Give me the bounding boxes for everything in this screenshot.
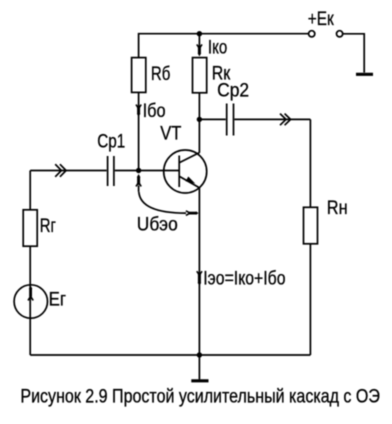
wire top rail from Rб branch to node	[139, 34, 200, 58]
arrow Uбэо up	[136, 174, 141, 192]
wire node to Cp2	[199, 118, 225, 120]
ground top right	[356, 73, 373, 76]
svg-text:Rг: Rг	[40, 215, 56, 237]
wire Rн to bottom rail	[309, 244, 311, 355]
arrow input chevrons	[55, 164, 66, 177]
wire right rail to Rн	[309, 119, 311, 207]
node top rail junction	[197, 31, 202, 36]
transistor emitter lead	[179, 176, 199, 188]
svg-text:Uбэо: Uбэо	[137, 214, 178, 236]
svg-text:Ср1: Ср1	[97, 130, 125, 152]
arrow output chevrons	[280, 114, 291, 126]
node collector Cp2 junction	[197, 117, 202, 122]
wire Cp2 to output corner	[234, 118, 310, 120]
wire bottom rail	[30, 354, 310, 356]
ground bottom	[191, 355, 208, 381]
wire emitter to bottom rail	[198, 188, 200, 355]
svg-text:+Ек: +Ек	[308, 8, 334, 30]
resistor Rк	[193, 58, 207, 93]
transistor base bar	[178, 156, 180, 188]
svg-text:Iко: Iко	[208, 37, 227, 59]
wire Rг through Ег to bottom rail	[29, 246, 31, 355]
svg-text:Rб: Rб	[151, 63, 170, 85]
svg-text:Ср2: Ср2	[217, 79, 249, 101]
svg-text:Iэо=Iко+Iбо: Iэо=Iко+Iбо	[203, 268, 285, 290]
wire Rк to collector	[198, 93, 200, 153]
resistor Rб	[132, 58, 146, 93]
resistor Rн	[304, 207, 318, 244]
svg-text:Rн: Rн	[327, 197, 348, 219]
transistor collector lead	[179, 153, 199, 163]
wire Rб to base node	[138, 92, 140, 170]
wire input to Cp1	[30, 170, 106, 172]
wire +Ек terminal to ground	[343, 34, 364, 73]
arrow Uбэо curve	[139, 192, 199, 216]
terminal +Ек right	[337, 31, 343, 37]
transistor emitter arrow	[186, 177, 196, 184]
source Ег circle	[14, 285, 47, 318]
arrow Iэо	[197, 271, 202, 286]
node base junction	[136, 168, 141, 173]
arrow Ег	[28, 286, 33, 301]
terminal +Ек left	[309, 31, 315, 37]
wire top rail node to +Ек terminal	[199, 33, 308, 35]
wire Cp1 to base	[115, 170, 179, 172]
capacitor Cp2	[227, 104, 234, 136]
arrow Iко	[197, 36, 202, 56]
svg-text:Iбо: Iбо	[143, 100, 166, 122]
arrow Iбо	[136, 105, 141, 117]
svg-text:Рисунок 2.9 Простой усилительн: Рисунок 2.9 Простой усилительный каскад …	[20, 387, 380, 408]
wire left rail to Rг	[29, 171, 31, 210]
transistor VT circle	[164, 150, 207, 193]
capacitor Cp1	[108, 156, 114, 186]
svg-text:VT: VT	[160, 122, 181, 144]
resistor Rг	[23, 210, 37, 246]
svg-text:Ег: Ег	[49, 288, 66, 310]
node bottom rail junction	[197, 352, 202, 357]
